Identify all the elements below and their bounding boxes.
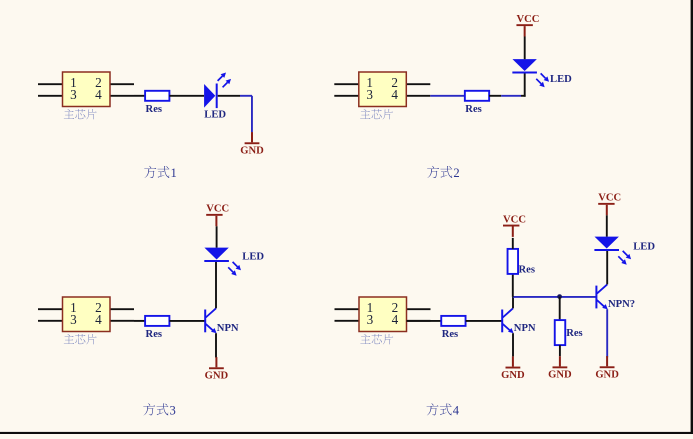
svg-text:4: 4: [95, 87, 102, 102]
svg-text:4: 4: [95, 312, 102, 327]
svg-text:Res: Res: [566, 328, 582, 339]
svg-text:VCC: VCC: [206, 204, 229, 215]
svg-text:NPN: NPN: [217, 323, 239, 334]
svg-text:Res: Res: [442, 329, 458, 340]
svg-text:VCC: VCC: [516, 14, 539, 25]
svg-text:GND: GND: [501, 370, 525, 381]
svg-text:4: 4: [391, 87, 398, 102]
svg-text:GND: GND: [240, 146, 264, 157]
svg-text:GND: GND: [205, 371, 229, 382]
svg-text:Res: Res: [519, 265, 535, 276]
svg-text:1: 1: [171, 166, 177, 180]
svg-text:VCC: VCC: [503, 214, 526, 225]
svg-text:Res: Res: [146, 104, 162, 115]
svg-text:2: 2: [453, 166, 459, 180]
svg-text:NPN?: NPN?: [608, 299, 635, 310]
svg-text:NPN: NPN: [514, 323, 536, 334]
svg-text:Res: Res: [465, 104, 481, 115]
svg-text:LED: LED: [550, 74, 572, 85]
svg-text:4: 4: [392, 312, 399, 327]
svg-text:Res: Res: [146, 329, 162, 340]
svg-text:LED: LED: [242, 251, 264, 262]
svg-text:VCC: VCC: [598, 193, 621, 204]
svg-text:GND: GND: [548, 370, 572, 381]
svg-text:4: 4: [453, 403, 460, 417]
svg-text:3: 3: [367, 312, 374, 327]
svg-text:3: 3: [366, 87, 373, 102]
svg-text:3: 3: [70, 87, 77, 102]
svg-text:3: 3: [170, 403, 176, 417]
svg-text:LED: LED: [633, 242, 655, 253]
svg-text:3: 3: [70, 312, 77, 327]
svg-text:GND: GND: [595, 370, 619, 381]
svg-text:LED: LED: [204, 109, 226, 120]
